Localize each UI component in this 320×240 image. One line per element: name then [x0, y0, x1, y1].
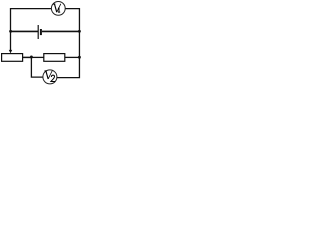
node B junction dot	[78, 30, 81, 33]
battery B1 negative plate	[40, 29, 42, 35]
wire right edge: node B down through node D to bottom-right corner, left to V2	[57, 31, 79, 77]
label V2	[45, 71, 56, 82]
voltmeter V1	[51, 1, 65, 15]
wire mid-left: node A to battery positive plate	[11, 30, 39, 32]
wire mid-right: battery negative plate to node B	[42, 30, 80, 32]
node A junction dot	[9, 30, 12, 33]
wire R1 right terminal to node C	[23, 56, 32, 58]
wire left branch: node A down to rheostat wiper arrow	[10, 31, 12, 50]
wire node C to R2 left terminal	[31, 56, 43, 58]
node D junction dot	[78, 56, 81, 59]
node C junction dot	[30, 56, 33, 59]
wire V2 branch: node C down and right to V2 left terminal	[31, 57, 42, 77]
wire top-left: corner to V1 left terminal	[11, 9, 52, 32]
label V1	[53, 4, 61, 12]
wire top-right: V1 right terminal to top-right corner, down right edge	[65, 9, 79, 32]
battery B1 positive plate	[37, 25, 39, 39]
voltmeter V2	[43, 70, 57, 84]
wire R2 right terminal to node D	[65, 56, 80, 58]
resistor R2	[44, 54, 65, 62]
resistor R1 (rheostat box)	[2, 54, 23, 62]
wiper arrowhead onto resistor R1	[9, 50, 12, 54]
